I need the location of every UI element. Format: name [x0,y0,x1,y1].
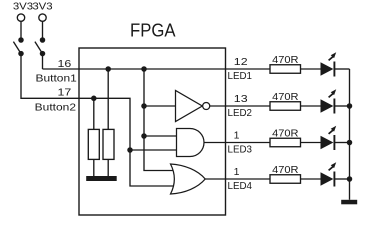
resistor 470R row2 [270,91,301,110]
wire LED4 to rail [334,178,349,180]
switch S2 bottom contact [40,51,46,57]
wire LED2 to rail [334,105,349,107]
inverter U2 bubble [203,102,210,109]
wire R2 dropper [107,69,109,130]
junction NOT input [141,103,147,109]
svg-text:16: 16 [58,58,72,70]
svg-text:470R: 470R [272,127,299,139]
wire R1 dropper [93,98,95,129]
svg-text:1: 1 [234,130,240,142]
FPGA box U1 [79,48,226,215]
resistor R1 [88,129,99,159]
ground bar left [86,176,117,181]
wire resistor to LED2 [301,105,321,107]
wire switch1 to pin17 [21,54,79,99]
switch S2 blade [35,42,43,54]
wire resistor to LED4 [301,178,321,180]
svg-text:LED3: LED3 [228,144,253,156]
wire AND input1 [144,135,177,137]
wire row1 pin16 to pin12 to resistor (net B1) [43,68,271,70]
wire resistor to LED3 [301,142,321,144]
wire AND output row3 [204,142,270,144]
svg-text:470R: 470R [272,164,299,176]
wire NOT input [144,105,176,107]
junction AND input1 [141,133,147,139]
svg-text:Button1: Button1 [36,73,77,85]
resistor 470R row3 [270,127,301,146]
svg-text:470R: 470R [272,54,299,66]
svg-text:12: 12 [234,56,248,68]
wire R2 to ground [107,159,109,176]
svg-text:3V3: 3V3 [32,1,52,13]
wire OR output row4 [205,178,270,180]
switch S1 blade [13,42,21,54]
LED D1 [321,52,337,76]
svg-text:470R: 470R [272,91,299,103]
wire switch2 down to pin16 row [42,54,44,69]
svg-text:13: 13 [234,93,248,105]
junction rail row2 [347,103,353,109]
svg-text:Button2: Button2 [35,102,76,114]
svg-text:17: 17 [58,87,72,99]
junction rail row3 [347,140,353,146]
power terminal circle 1 [17,14,24,21]
wire LED3 to rail [334,142,349,144]
wire circle2 to switch2 [42,21,44,40]
junction pin16/R2 [105,66,111,72]
svg-text:LED1: LED1 [228,70,253,82]
svg-text:LED2: LED2 [228,107,253,119]
wire resistor to LED1 [301,68,321,70]
LED D4 [321,162,337,186]
resistor 470R row1 [270,54,301,73]
wire AND input2 [130,149,177,151]
junction pin17/R1 [91,96,97,102]
wire R1 to ground [93,159,95,176]
resistor R2 [103,129,114,159]
LED D2 [321,89,337,113]
switch S1 bottom contact [18,51,24,57]
svg-text:1: 1 [234,166,240,178]
power terminal circle 2 [39,14,46,21]
svg-text:3V3: 3V3 [13,1,33,13]
wire gate column B1 [144,69,177,171]
resistor 470R row4 [270,164,301,183]
wire LED1 to rail [334,68,349,70]
wire circle1 to switch1 [20,21,22,40]
junction pin16/gate column [141,66,147,72]
AND gate U3 [177,129,205,157]
OR gate U4 [171,164,206,194]
switch S2 top contact [40,37,46,43]
switch S1 top contact [18,37,24,43]
junction AND input2 [127,147,133,153]
junction rail row4 [347,176,353,182]
svg-text:FPGA: FPGA [130,20,176,41]
inverter U2 triangle [176,91,203,122]
wire ground rail [349,69,351,200]
ground bar right [341,200,357,205]
wire NOT output row2 [210,105,270,107]
svg-text:LED4: LED4 [228,180,253,192]
LED D3 [321,126,337,150]
wire pin17 column B2 [79,98,177,186]
